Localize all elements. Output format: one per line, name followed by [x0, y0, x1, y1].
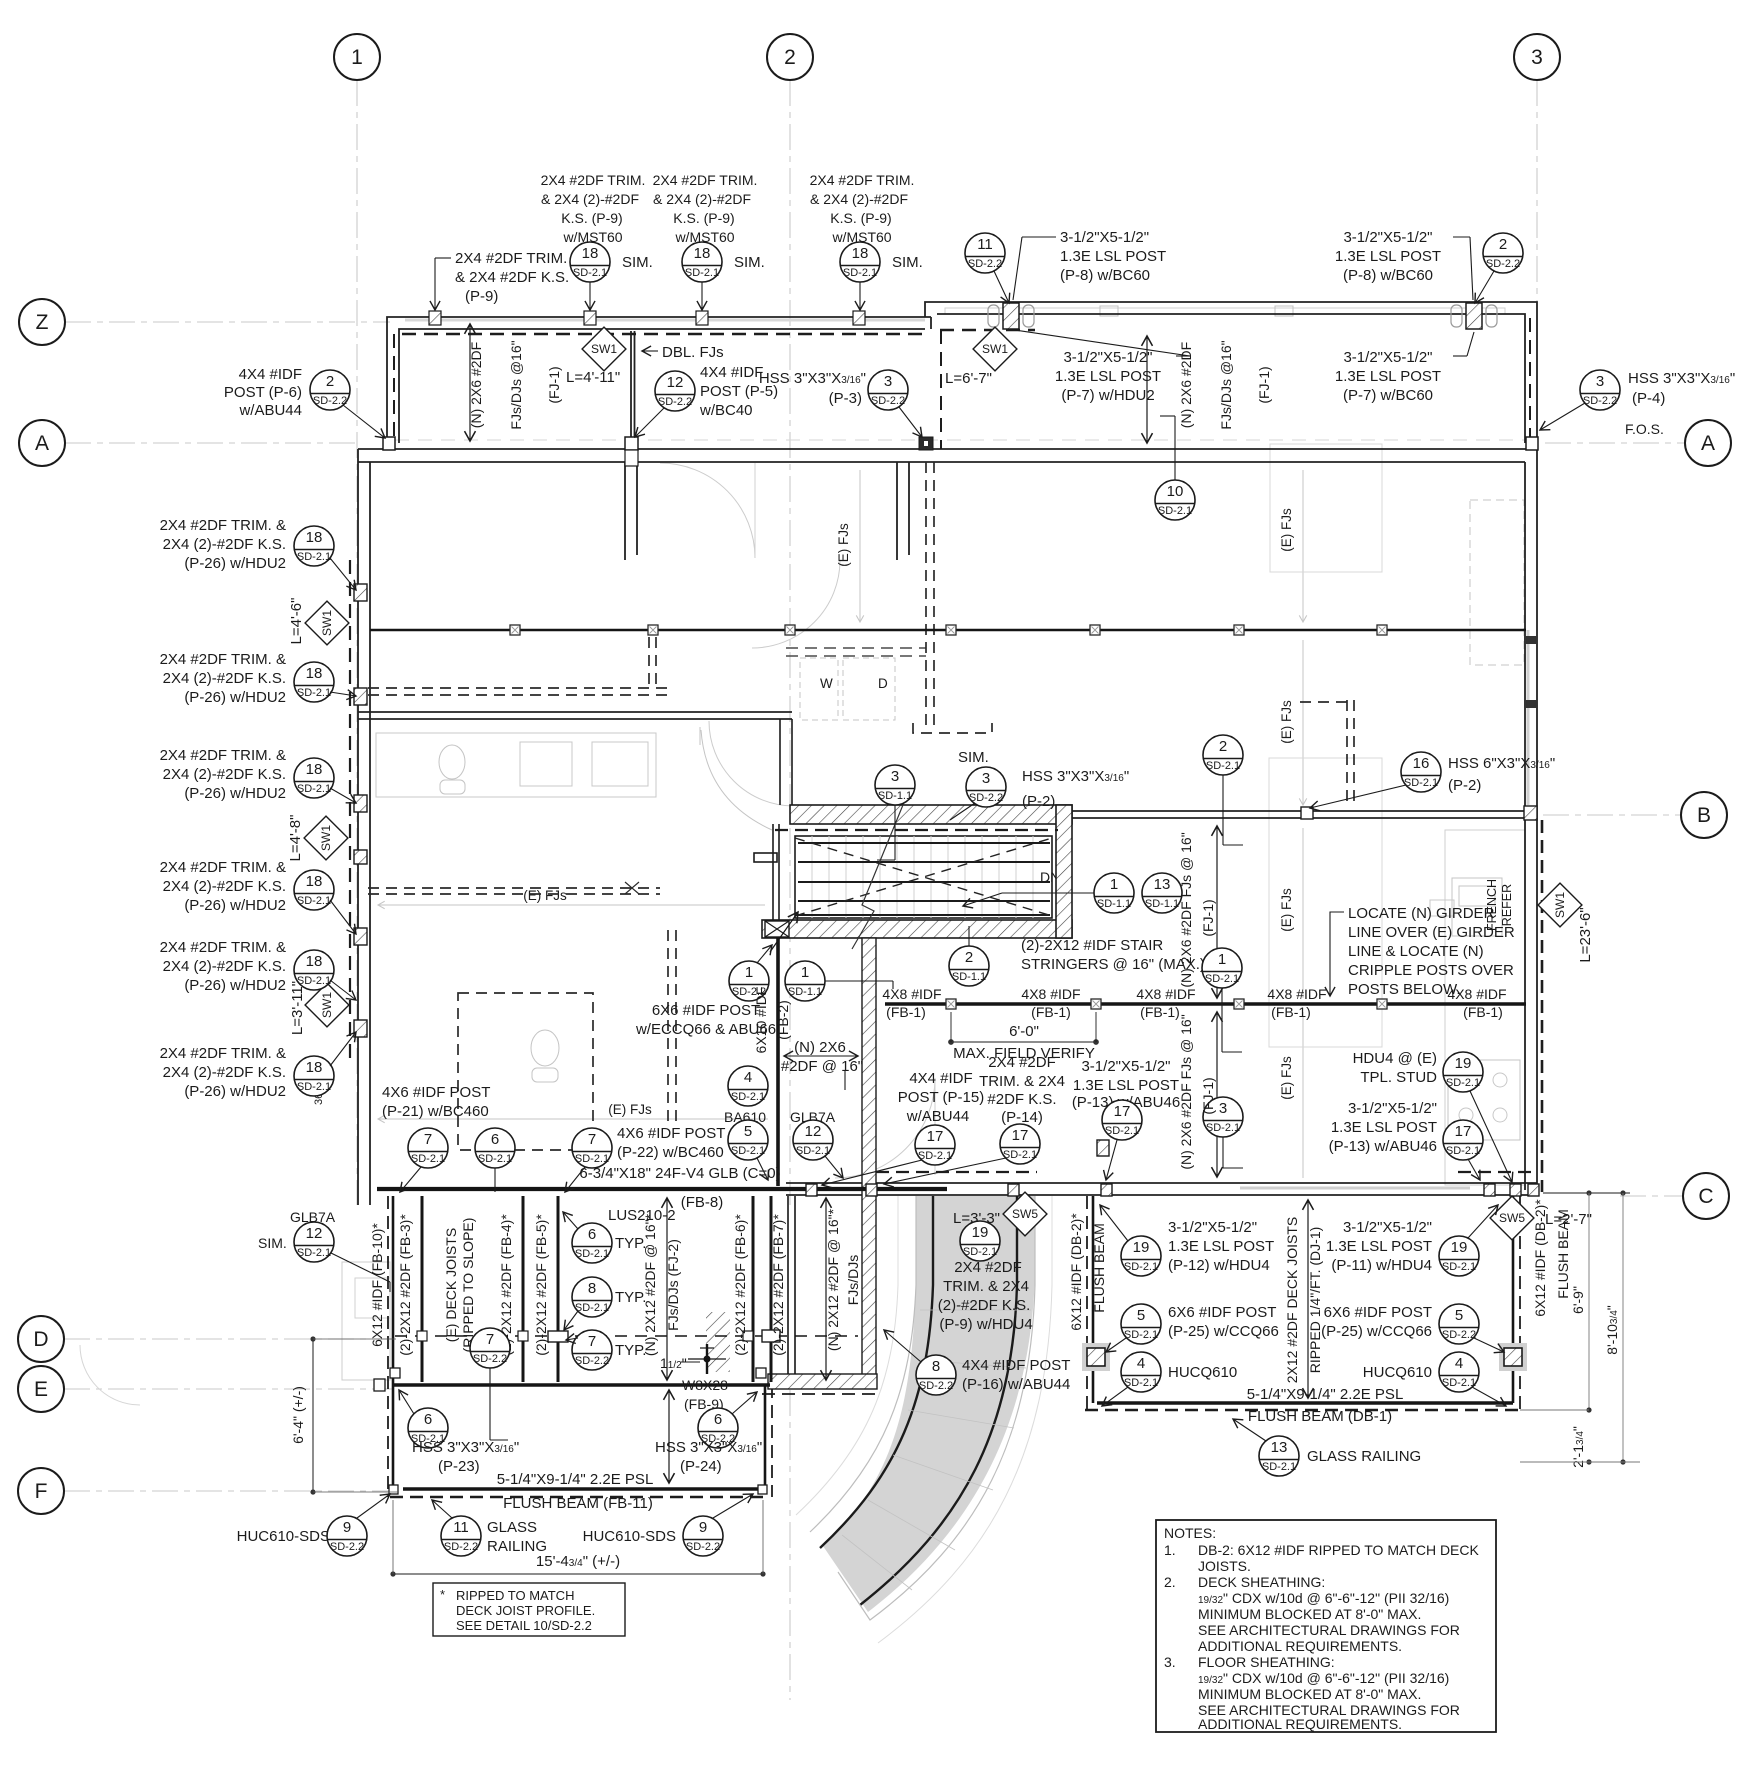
interior wall x900 below A — [896, 462, 898, 560]
svg-text:SD-2.1: SD-2.1 — [685, 267, 719, 279]
text 2X4 P-14 — [979, 1054, 1065, 1126]
left deck joist FB-4 — [522, 1196, 525, 1382]
svg-text:(P-2): (P-2) — [1448, 777, 1481, 794]
callout 3/SD-2.2 at P-3 — [868, 370, 922, 437]
svg-text:DBL. FJs: DBL. FJs — [662, 344, 724, 361]
svg-text:L=4'-11": L=4'-11" — [566, 369, 620, 386]
svg-text:FLUSH BEAM: FLUSH BEAM — [1091, 1223, 1107, 1312]
grid line C right — [1620, 1195, 1685, 1197]
door arc mid — [752, 560, 840, 648]
svg-text:(P-2): (P-2) — [1022, 793, 1055, 810]
svg-text:4X8 #IDF: 4X8 #IDF — [882, 986, 941, 1002]
callout 18/SD-2.1 sim 1 — [570, 242, 653, 310]
callout 1/SD-2.2 — [729, 945, 772, 1001]
P-26 block 1 — [160, 517, 286, 572]
svg-text:HDU4 @ (E): HDU4 @ (E) — [1353, 1050, 1437, 1067]
svg-text:FLUSH BEAM (FB-11): FLUSH BEAM (FB-11) — [503, 1495, 653, 1512]
stair right hatched band — [1056, 805, 1072, 938]
interior wall x628 below A — [624, 462, 626, 560]
svg-text:(P-21) w/BC460: (P-21) w/BC460 — [382, 1103, 489, 1120]
svg-text:FJs/DJs @16": FJs/DJs @16" — [508, 340, 524, 429]
joist arrow left lower — [378, 1118, 768, 1120]
svg-text:1.3E LSL POST: 1.3E LSL POST — [1326, 1238, 1432, 1255]
svg-text:& 2X4 (2)-#2DF: & 2X4 (2)-#2DF — [810, 191, 908, 207]
svg-text:2X12 #2DF DECK JOISTS: 2X12 #2DF DECK JOISTS — [1284, 1217, 1300, 1384]
svg-text:SD-2.1: SD-2.1 — [918, 1150, 952, 1162]
svg-text:6-3/4"X18" 24F-V4 GLB (C=0): 6-3/4"X18" 24F-V4 GLB (C=0) — [579, 1165, 780, 1182]
left wall inner — [369, 462, 371, 1205]
SW1 diamond left wall m — [304, 816, 348, 860]
SW1 dashed vertical x941 — [940, 330, 942, 449]
A-line wall upper — [358, 448, 1537, 450]
W8X28 hatch patch — [706, 1312, 730, 1372]
door arc top-left room — [660, 463, 755, 558]
top band left inner wall — [399, 329, 925, 443]
refrigerator — [1430, 900, 1454, 916]
svg-text:(E) FJs: (E) FJs — [836, 523, 851, 567]
svg-text:(P-4): (P-4) — [1632, 390, 1665, 407]
svg-text:3: 3 — [1219, 1100, 1227, 1117]
svg-text:4X4 #IDF: 4X4 #IDF — [909, 1070, 972, 1087]
svg-text:2: 2 — [326, 373, 334, 390]
kitchen counter right — [1445, 830, 1525, 1185]
bath counter — [376, 733, 656, 797]
svg-text:(E) FJs: (E) FJs — [1279, 1056, 1294, 1100]
svg-text:3-1/2"X5-1/2": 3-1/2"X5-1/2" — [1343, 349, 1432, 366]
callout 8/SD-2.2 — [884, 1330, 956, 1395]
vertical dashed pair x670 lower — [667, 930, 669, 1128]
svg-text:1.3E LSL POST: 1.3E LSL POST — [1335, 248, 1441, 265]
svg-text:SD-2.1: SD-2.1 — [297, 1247, 331, 1259]
svg-text:(FJ-1): (FJ-1) — [1200, 899, 1216, 936]
svg-text:TYP.: TYP. — [615, 1235, 646, 1252]
svg-text:L=6'-7": L=6'-7" — [945, 370, 992, 387]
dashed T cap — [913, 723, 992, 733]
svg-text:6: 6 — [424, 1411, 432, 1428]
svg-text:6'-9": 6'-9" — [1570, 1286, 1586, 1314]
deck joist arrow right area of left deck — [825, 1198, 827, 1380]
svg-text:POST (P-6): POST (P-6) — [224, 384, 302, 401]
svg-text:2X4 #2DF TRIM. &: 2X4 #2DF TRIM. & — [160, 517, 286, 534]
callout 8/SD-2.1 typ — [564, 1277, 646, 1330]
left deck edge beam — [392, 1196, 395, 1489]
rotated FJ-1 text right — [1178, 342, 1194, 428]
callout 6/SD-2.1 P23 — [399, 1390, 448, 1448]
svg-text:SD-2.2: SD-2.2 — [969, 792, 1003, 804]
svg-text:4: 4 — [1455, 1355, 1463, 1372]
svg-text:SD-2.2: SD-2.2 — [1583, 395, 1617, 407]
wall from bath corner down to stair — [779, 719, 781, 805]
svg-text:SD-2.2: SD-2.2 — [1442, 1329, 1476, 1341]
beam FB-9 / E wall — [393, 1383, 770, 1387]
svg-text:SD-2.1: SD-2.1 — [1124, 1261, 1158, 1273]
svg-text:SIM.: SIM. — [258, 1235, 287, 1251]
callout 1/SD-1.1 — [785, 961, 893, 1001]
callout 4/SD-2.1 HUCQ — [1102, 1352, 1161, 1406]
svg-text:(2)-2X12 #2DF (FB-3)*: (2)-2X12 #2DF (FB-3)* — [397, 1214, 413, 1356]
svg-text:w/ABU44: w/ABU44 — [238, 402, 302, 419]
svg-text:SD-2.1: SD-2.1 — [1205, 973, 1239, 985]
svg-text:(P-24): (P-24) — [680, 1458, 722, 1475]
svg-text:6: 6 — [588, 1226, 596, 1243]
svg-text:SW1: SW1 — [591, 342, 617, 356]
ramp inner dark curve — [820, 1196, 933, 1548]
stair top hatched band — [790, 805, 1072, 824]
svg-text:(N) 2X6 #2DF: (N) 2X6 #2DF — [1178, 342, 1194, 428]
text block P-9 trio 2 — [653, 172, 758, 245]
svg-text:SD-2.1: SD-2.1 — [1124, 1329, 1158, 1341]
beam FB-1 — [885, 1002, 1526, 1006]
svg-text:SD-2.1: SD-2.1 — [1105, 1125, 1139, 1137]
svg-text:SD-2.2: SD-2.2 — [1486, 258, 1520, 270]
joist arrow (E)FJs kitchen mid — [1302, 640, 1304, 805]
svg-text:7: 7 — [424, 1131, 432, 1148]
svg-text:3: 3 — [982, 770, 990, 787]
rotated deck labels — [369, 1208, 861, 1356]
gray window lines right wall above B — [1527, 630, 1530, 805]
left deck joist FB-3 — [421, 1196, 424, 1382]
callout 17/SD-2.1 a — [822, 1125, 955, 1185]
svg-text:SIM.: SIM. — [734, 254, 765, 271]
svg-text:SD-2.1: SD-2.1 — [297, 687, 331, 699]
svg-text:& 2X4 (2)-#2DF: & 2X4 (2)-#2DF — [653, 191, 751, 207]
grid line D — [64, 1338, 392, 1340]
svg-text:SD-2.1: SD-2.1 — [1206, 760, 1240, 772]
posts at E line ends — [374, 1379, 385, 1391]
beam FB-2 top arrow — [770, 912, 798, 952]
svg-text:SEE ARCHITECTURAL DRAWINGS FOR: SEE ARCHITECTURAL DRAWINGS FOR — [1198, 1622, 1460, 1638]
jamb marks right wall — [1524, 636, 1537, 644]
grid bubble 1 — [334, 34, 380, 80]
post HSS right wall at B — [1524, 806, 1537, 820]
text LSL P-7 left — [1055, 349, 1161, 404]
svg-text:(2)-#2DF K.S.: (2)-#2DF K.S. — [938, 1297, 1031, 1314]
svg-text:6X12 #IDF (DB-2)*: 6X12 #IDF (DB-2)* — [1068, 1213, 1084, 1331]
svg-text:SD-2.1: SD-2.1 — [1446, 1077, 1480, 1089]
svg-text:2: 2 — [1219, 738, 1227, 755]
svg-text:SD-2.1: SD-2.1 — [1206, 1122, 1240, 1134]
right wall inner — [1524, 462, 1526, 1190]
text 4X4 P-15 — [898, 1070, 984, 1125]
grid bubble C right — [1683, 1173, 1729, 1219]
svg-text:4X6 #IDF POST: 4X6 #IDF POST — [382, 1084, 490, 1101]
grid line A dashes inside band — [395, 439, 1530, 441]
SW5 dashed on C wall left of corridor — [876, 1171, 1037, 1173]
lower bath toilet — [531, 1030, 559, 1066]
left deck joist FB-5 — [557, 1196, 560, 1382]
dashed wall below A at x930 — [925, 462, 927, 727]
svg-text:4X8 #IDF: 4X8 #IDF — [1267, 986, 1326, 1002]
text 6X6 post ECCQ66 — [635, 1002, 776, 1038]
svg-text:(N) 2X6 #2DF FJs @ 16": (N) 2X6 #2DF FJs @ 16" — [1178, 832, 1194, 987]
wall B line upper — [1072, 810, 1525, 812]
svg-text:SW5: SW5 — [1012, 1207, 1038, 1221]
grid bubble Z — [19, 299, 65, 345]
svg-text:(P-23): (P-23) — [438, 1458, 480, 1475]
shower door diagonal — [701, 730, 772, 830]
svg-text:SD-2.2: SD-2.2 — [686, 1541, 720, 1553]
svg-text:2X4 (2)-#2DF K.S.: 2X4 (2)-#2DF K.S. — [163, 670, 286, 687]
svg-text:3-1/2"X5-1/2": 3-1/2"X5-1/2" — [1081, 1058, 1170, 1075]
svg-text:SD-2.1: SD-2.1 — [1442, 1261, 1476, 1273]
W8X28 mark — [706, 1344, 708, 1374]
stair dashed X brace — [795, 838, 1052, 916]
svg-text:LINE OVER (E) GIRDER: LINE OVER (E) GIRDER — [1348, 924, 1515, 941]
text HDU4 TPL — [1353, 1050, 1438, 1086]
rotated FJ-1 text left — [468, 342, 484, 428]
svg-text:SD-2.1: SD-2.1 — [1442, 1377, 1476, 1389]
top band right inner wall — [937, 314, 1525, 443]
svg-text:1: 1 — [801, 964, 809, 981]
heavy dashed below stair-bottom band — [762, 1393, 880, 1395]
svg-text:8: 8 — [932, 1358, 940, 1375]
kitchen sink — [1452, 878, 1502, 936]
svg-text:8: 8 — [588, 1280, 596, 1297]
svg-text:SD-2.2: SD-2.2 — [330, 1541, 364, 1553]
svg-text:7: 7 — [588, 1131, 596, 1148]
svg-text:2X4 #2DF TRIM.: 2X4 #2DF TRIM. — [810, 172, 915, 188]
svg-text:DB-2: 6X12 #IDF RIPPED TO MATC: DB-2: 6X12 #IDF RIPPED TO MATCH DECK — [1198, 1542, 1480, 1558]
svg-text:9: 9 — [699, 1519, 707, 1536]
svg-text:(P-26) w/HDU2: (P-26) w/HDU2 — [184, 1083, 286, 1100]
svg-text:SD-2.1: SD-2.1 — [1003, 1149, 1037, 1161]
svg-text:SIM.: SIM. — [892, 254, 923, 271]
grid bubble A right — [1685, 420, 1731, 466]
svg-text:SD-2.2: SD-2.2 — [313, 395, 347, 407]
stair left wall segments — [754, 719, 792, 920]
svg-text:LUS210-2: LUS210-2 — [608, 1207, 676, 1224]
svg-text:2X4 #2DF: 2X4 #2DF — [954, 1259, 1022, 1276]
P-26 block 6 — [160, 1045, 286, 1100]
stair-bottom hatched band at E — [768, 1374, 877, 1389]
SW5 diamond corridor — [1003, 1192, 1047, 1236]
svg-text:FLUSH BEAM (DB-1): FLUSH BEAM (DB-1) — [1248, 1408, 1392, 1425]
SW1 dashed top band left — [402, 333, 925, 336]
svg-text:SD-2.2: SD-2.2 — [871, 395, 905, 407]
svg-text:(P-26) w/HDU2: (P-26) w/HDU2 — [184, 977, 286, 994]
SW1 diamond left wall l — [305, 983, 349, 1027]
text 2X4 P-9 corridor — [938, 1259, 1033, 1333]
svg-text:JOISTS.: JOISTS. — [1198, 1558, 1251, 1574]
right deck posts with gray shadow — [1082, 1343, 1110, 1371]
svg-text:(P-26) w/HDU2: (P-26) w/HDU2 — [184, 689, 286, 706]
svg-text:(FB-1): (FB-1) — [1031, 1004, 1071, 1020]
beam GLB FB-8 — [377, 1187, 947, 1191]
text 6X6 P-25 right — [1321, 1304, 1432, 1340]
svg-text:NOTES:: NOTES: — [1164, 1525, 1216, 1541]
grid line 3 — [1536, 80, 1538, 450]
svg-text:2X4 #2DF TRIM. &: 2X4 #2DF TRIM. & — [160, 747, 286, 764]
ripped note box — [433, 1583, 625, 1636]
callout 3/SD-2.1 right low — [1203, 1097, 1243, 1168]
wall jog at x=931 — [930, 317, 932, 329]
callout 2/SD-2.2 right — [1475, 233, 1523, 303]
grid line 1 — [356, 80, 358, 1205]
SW1 diamond top left — [582, 327, 626, 371]
callout 5/SD-2.1 — [728, 1120, 768, 1180]
grid bubble A left — [19, 420, 65, 466]
posts on C wall — [806, 1184, 1539, 1196]
svg-text:CRIPPLE POSTS OVER: CRIPPLE POSTS OVER — [1348, 962, 1514, 979]
D line dark dashed through deck — [395, 1335, 858, 1337]
svg-text:6X6 #IDF POST: 6X6 #IDF POST — [1168, 1304, 1276, 1321]
svg-text:SD-2.1: SD-2.1 — [297, 783, 331, 795]
svg-text:HUC610-SDS: HUC610-SDS — [237, 1528, 330, 1545]
dryer box — [843, 658, 895, 720]
SW1 dashed right wall B-C — [1541, 820, 1544, 1192]
corridor left hatched wall — [862, 938, 876, 1376]
svg-text:HUCQ610: HUCQ610 — [1168, 1364, 1237, 1381]
svg-text:4: 4 — [1137, 1355, 1145, 1372]
svg-text:7: 7 — [486, 1331, 494, 1348]
svg-text:DECK JOIST PROFILE.: DECK JOIST PROFILE. — [456, 1603, 595, 1618]
post P-3 at x925 — [919, 437, 933, 450]
svg-text:18: 18 — [306, 1059, 323, 1076]
svg-text:SW1: SW1 — [982, 342, 1008, 356]
callout 6/SD-2.1 P24 — [698, 1392, 757, 1448]
svg-text:2X4 #2DF: 2X4 #2DF — [988, 1054, 1056, 1071]
stair inner dashed top — [775, 829, 1058, 831]
svg-text:(2)-2X12 #2DF (FB-7)*: (2)-2X12 #2DF (FB-7)* — [770, 1214, 786, 1356]
svg-text:6: 6 — [714, 1411, 722, 1428]
callout 4/SD-2.1 right — [1439, 1352, 1506, 1406]
svg-text:SD-1.1: SD-1.1 — [788, 986, 822, 998]
grid line F — [64, 1490, 395, 1492]
callout 13/SD-2.1 glass — [1233, 1419, 1299, 1476]
svg-text:SD-2.1: SD-2.1 — [575, 1302, 609, 1314]
callout 11 glass railing — [432, 1500, 481, 1556]
svg-text:(E) FJs: (E) FJs — [523, 888, 567, 903]
posts on B wall — [1301, 807, 1313, 819]
svg-text:6X10 #IDF: 6X10 #IDF — [753, 987, 769, 1054]
text (N) 2X6 #2DF @16 — [781, 1039, 863, 1075]
bath top wall lower — [358, 718, 792, 720]
callout 7/SD-2.2 left — [470, 1328, 510, 1440]
FJ-2 arrow left deck — [666, 1198, 668, 1380]
heavy dashed left deck edge — [387, 1196, 389, 1497]
wall B line lower — [1072, 817, 1525, 819]
svg-text:RIPPED TO MATCH: RIPPED TO MATCH — [456, 1588, 574, 1603]
svg-text:SIM.: SIM. — [958, 749, 989, 766]
P-26 block 4 — [160, 859, 286, 914]
svg-text:K.S. (P-9): K.S. (P-9) — [830, 210, 891, 226]
arrow lower bay left deck — [668, 1390, 670, 1483]
svg-text:3-1/2"X5-1/2": 3-1/2"X5-1/2" — [1343, 229, 1432, 246]
svg-text:(FB-2): (FB-2) — [775, 1000, 791, 1040]
svg-text:3-1/2"X5-1/2": 3-1/2"X5-1/2" — [1348, 1100, 1437, 1117]
svg-text:& 2X4 (2)-#2DF: & 2X4 (2)-#2DF — [541, 191, 639, 207]
left wall posts (P-26) — [354, 584, 367, 1037]
svg-text:LINE & LOCATE (N): LINE & LOCATE (N) — [1348, 943, 1484, 960]
svg-text:10: 10 — [1167, 483, 1184, 500]
post P-4 right corner — [1526, 437, 1538, 450]
svg-text:L=4'-8": L=4'-8" — [287, 815, 304, 862]
callout 2/SD-2.2 P-6 — [310, 370, 385, 438]
svg-text:12: 12 — [667, 374, 684, 391]
svg-text:1: 1 — [351, 46, 363, 69]
svg-text:(P-9): (P-9) — [465, 288, 498, 305]
LSL posts right band — [1003, 303, 1019, 329]
svg-text:SD-2.2: SD-2.2 — [968, 258, 1002, 270]
SW1 diamond top right — [973, 327, 1017, 371]
svg-text:11: 11 — [453, 1519, 469, 1536]
beam DB-1 — [1097, 1401, 1513, 1405]
left deck lower right edge — [764, 1385, 767, 1489]
svg-text:2X4 #2DF TRIM.: 2X4 #2DF TRIM. — [455, 250, 567, 267]
svg-text:13: 13 — [1154, 876, 1171, 893]
svg-text:SD-2.1: SD-2.1 — [843, 267, 877, 279]
svg-text:SD-2.1: SD-2.1 — [1124, 1377, 1158, 1389]
gray dashed closet right top — [1470, 500, 1524, 665]
callout 5/SD-2.1 P25 — [1106, 1304, 1161, 1352]
svg-text:5-1/4"X9-1/4" 2.2E PSL: 5-1/4"X9-1/4" 2.2E PSL — [1247, 1386, 1404, 1403]
stair stringer lines — [798, 843, 1050, 915]
svg-text:DECK SHEATHING:: DECK SHEATHING: — [1198, 1574, 1325, 1590]
svg-text:3-1/2"X5-1/2": 3-1/2"X5-1/2" — [1168, 1219, 1257, 1236]
svg-text:SD-2.1: SD-2.1 — [297, 551, 331, 563]
right dims — [1543, 1192, 1630, 1194]
svg-text:(P-7) w/BC60: (P-7) w/BC60 — [1343, 387, 1433, 404]
svg-text:18: 18 — [582, 245, 599, 262]
svg-text:2X4 (2)-#2DF K.S.: 2X4 (2)-#2DF K.S. — [163, 958, 286, 975]
svg-text:(P-12) w/HDU4: (P-12) w/HDU4 — [1168, 1257, 1270, 1274]
kitchen range — [1448, 1060, 1520, 1140]
svg-text:(E) FJs: (E) FJs — [1279, 888, 1294, 932]
FJ-1 arrow right low (FB-1 to C) — [1216, 1012, 1218, 1177]
text LSL P-13 right — [1329, 1100, 1437, 1155]
svg-text:LOCATE (N) GIRDER: LOCATE (N) GIRDER — [1348, 905, 1495, 922]
svg-text:POST (P-15): POST (P-15) — [898, 1089, 984, 1106]
svg-text:4X8 #IDF: 4X8 #IDF — [1021, 986, 1080, 1002]
dim 6'-4" — [312, 1339, 314, 1492]
svg-text:(FJ-1): (FJ-1) — [546, 366, 562, 403]
svg-text:12: 12 — [306, 1225, 323, 1242]
svg-text:A: A — [35, 432, 49, 455]
svg-text:5: 5 — [744, 1123, 752, 1140]
text block P-9 trio 3 — [810, 172, 915, 245]
svg-text:2: 2 — [965, 949, 973, 966]
callout 19/SD-2.1 kitchen — [1443, 1052, 1512, 1182]
door arc bath hall — [709, 721, 794, 806]
text locate girder — [1330, 905, 1515, 998]
grid line A left — [65, 442, 358, 444]
callout 4/SD-2.1 — [728, 1066, 768, 1106]
svg-text:SW1: SW1 — [320, 992, 334, 1018]
post at corridor right top — [1097, 1140, 1109, 1156]
dbl FJ line at x632 — [630, 331, 632, 443]
grid bubble B right — [1681, 792, 1727, 838]
SW5 diamond right deck — [1490, 1196, 1534, 1240]
SW1 dashed vertical left of band — [393, 334, 395, 443]
deck right edge pair — [787, 1196, 789, 1374]
svg-text:(N) 2X12 #2DF @ 16"*: (N) 2X12 #2DF @ 16"* — [825, 1208, 841, 1351]
svg-text:4: 4 — [744, 1069, 752, 1086]
callout 19/SD-2.1 P12 — [1100, 1205, 1161, 1276]
svg-text:19: 19 — [972, 1224, 989, 1241]
svg-text:F.O.S.: F.O.S. — [1625, 421, 1664, 437]
toilet top bath — [439, 745, 465, 779]
ramp texture lines — [842, 1310, 1031, 1590]
callout 5/SD-2.2 right — [1439, 1304, 1504, 1352]
svg-text:(FB-1): (FB-1) — [1140, 1004, 1180, 1020]
svg-text:(2)-2X12 #2DF (FB-6)*: (2)-2X12 #2DF (FB-6)* — [732, 1214, 748, 1356]
svg-text:SW1: SW1 — [319, 825, 333, 851]
joist arrow (E)FJs kitchen upper — [1302, 470, 1304, 622]
heavy dashed below FB-11 — [390, 1496, 770, 1499]
cabinets left below D — [342, 1262, 390, 1380]
gray band inside top band left — [405, 319, 925, 322]
svg-text:1: 1 — [745, 964, 753, 981]
